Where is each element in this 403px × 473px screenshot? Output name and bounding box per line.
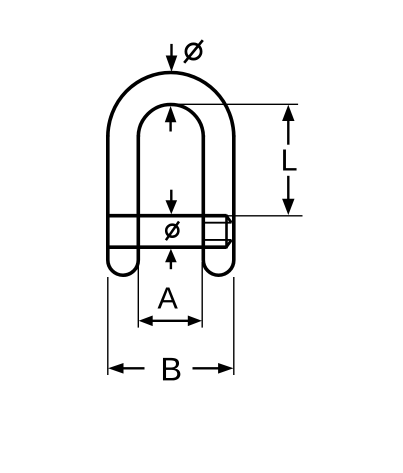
A dimension arrow line — [139, 316, 202, 327]
B dimension left arrow — [108, 363, 144, 374]
diameter symbol top — [184, 40, 203, 63]
right leg rounded bottom — [203, 260, 234, 275]
B dimension right arrow — [193, 363, 234, 374]
B dimension right extension line — [233, 277, 235, 375]
left leg rounded bottom — [108, 260, 139, 275]
pin thread minor line upper — [203, 222, 231, 224]
right leg inner edge — [202, 135, 206, 260]
diameter symbol pin — [166, 222, 179, 241]
shackle inner bow arch — [138, 104, 203, 137]
B dimension left extension line — [107, 277, 109, 375]
L dimension top extension line — [172, 103, 298, 105]
shackle outer bow arch — [108, 73, 234, 138]
L dimension lower arrow — [282, 176, 294, 215]
pin top line — [106, 214, 227, 218]
label A — [158, 288, 178, 309]
pin bottom line — [106, 245, 227, 249]
L dimension upper arrow — [282, 105, 294, 145]
label B — [163, 358, 180, 380]
pin end chamfer face line — [225, 215, 228, 249]
pin chamfer diagonal top — [226, 216, 231, 223]
right leg outer edge — [232, 135, 236, 260]
label L — [283, 150, 296, 171]
L dimension bottom extension line — [227, 215, 303, 217]
left leg outer edge — [106, 135, 110, 260]
pin chamfer diagonal bottom — [226, 240, 231, 247]
arrow pointing down at pin top — [166, 190, 178, 215]
pin thread minor line lower — [203, 239, 231, 241]
A dimension right extension line — [201, 262, 203, 328]
arrow pointing up at inner bow top — [165, 106, 177, 132]
A dimension left extension line — [137, 262, 139, 328]
arrow pointing up at pin bottom — [165, 249, 177, 269]
left leg inner edge — [137, 135, 141, 260]
arrow pointing down at outer bow top — [166, 44, 178, 72]
